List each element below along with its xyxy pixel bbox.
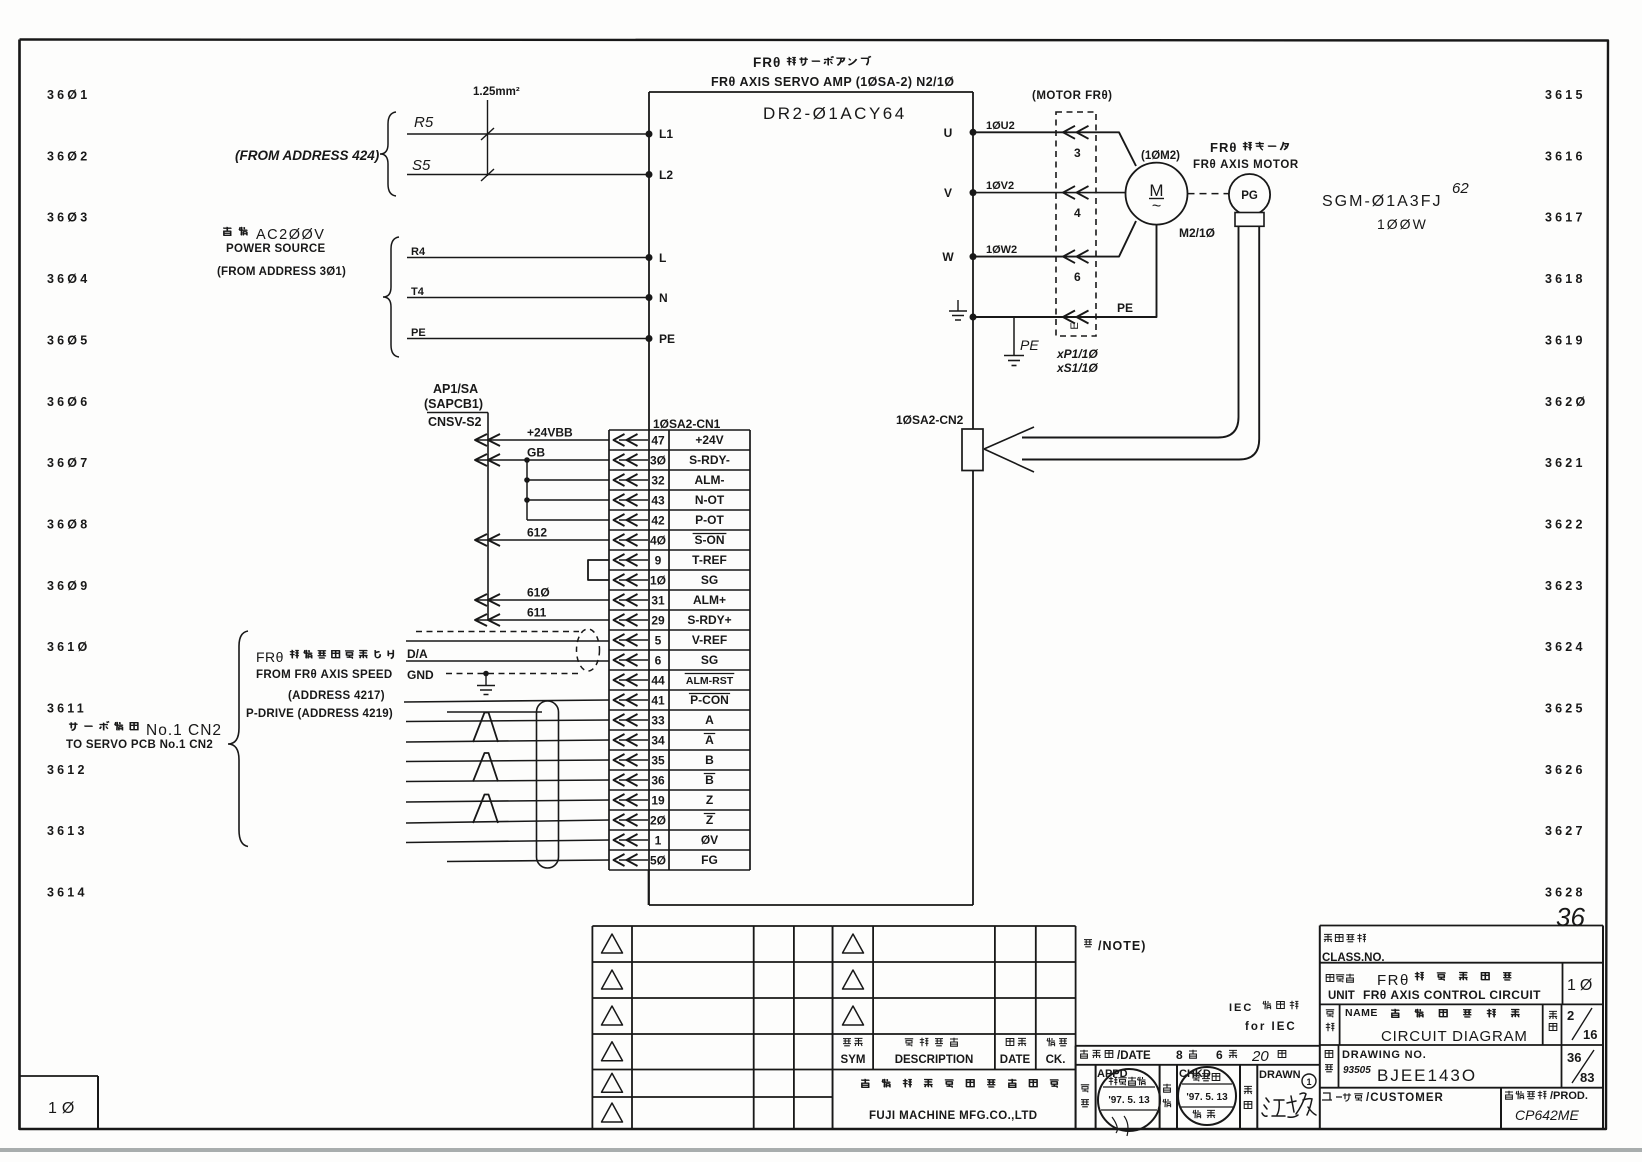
svg-text:1ØSA2-CN2: 1ØSA2-CN2 <box>896 413 964 427</box>
svg-text:3Ø: 3Ø <box>650 453 666 467</box>
wire GB to pin 30 <box>475 459 609 461</box>
label power source AC200V (japanese) <box>223 227 231 235</box>
svg-text:(1ØM2): (1ØM2) <box>1141 150 1180 162</box>
name row 名称 column <box>1339 1004 1341 1045</box>
svg-text:1Ø: 1Ø <box>48 1100 79 1117</box>
svg-text:L: L <box>659 251 666 265</box>
svg-text:'97. 5. 13: '97. 5. 13 <box>1186 1092 1228 1103</box>
svg-text:FG: FG <box>701 853 718 867</box>
twist pair A <box>473 713 498 743</box>
svg-text:61Ø: 61Ø <box>527 586 550 600</box>
svg-text:DATE: DATE <box>1000 1054 1031 1066</box>
PE ground drop wire <box>1013 317 1015 355</box>
svg-text:DR2-Ø1ACY64: DR2-Ø1ACY64 <box>763 104 907 123</box>
svg-text:for IEC: for IEC <box>1245 1021 1297 1033</box>
svg-text:U: U <box>944 126 953 140</box>
svg-text:3618: 3618 <box>1545 272 1586 286</box>
svg-text:3626: 3626 <box>1545 763 1586 777</box>
svg-text:ALM+: ALM+ <box>693 593 726 607</box>
svg-text:TO SERVO PCB No.1 CN2: TO SERVO PCB No.1 CN2 <box>66 739 213 751</box>
product no cell <box>1500 1088 1502 1129</box>
svg-text:DRAWING NO.: DRAWING NO. <box>1342 1049 1427 1061</box>
svg-text:36Ø4: 36Ø4 <box>47 272 90 286</box>
svg-text:4: 4 <box>1074 206 1081 220</box>
svg-text:T-REF: T-REF <box>692 553 727 567</box>
svg-text:ALM-: ALM- <box>695 473 725 487</box>
scan page bottom edge <box>0 1148 1642 1152</box>
svg-text:62: 62 <box>1452 180 1469 197</box>
pin 5Ø FG <box>619 859 648 861</box>
svg-text:1Ø: 1Ø <box>650 573 666 587</box>
svg-text:FRθ: FRθ <box>753 55 781 70</box>
brace to servo PCB No.1 CN2 <box>228 631 248 847</box>
pin 9 T-REF <box>619 559 648 561</box>
svg-text:FROM FRθ AXIS SPEED: FROM FRθ AXIS SPEED <box>256 669 393 681</box>
brace for R5/S5 inputs <box>380 112 396 196</box>
svg-text:PE: PE <box>1117 301 1133 315</box>
svg-text:36Ø7: 36Ø7 <box>47 456 90 470</box>
svg-text:36Ø6: 36Ø6 <box>47 395 90 409</box>
svg-text:3616: 3616 <box>1545 149 1586 163</box>
svg-text:Z: Z <box>706 813 713 827</box>
svg-text:3625: 3625 <box>1545 702 1586 716</box>
svg-text:+24VBB: +24VBB <box>527 426 573 440</box>
wire pair /B to pin 36 <box>406 780 609 782</box>
svg-text:BJEE143O: BJEE143O <box>1377 1066 1477 1085</box>
name electric circuit diagram (japanese) <box>1391 1009 1399 1017</box>
wire branch to pin 43 <box>527 499 609 501</box>
svg-text:R4: R4 <box>411 246 426 258</box>
svg-text:POWER SOURCE: POWER SOURCE <box>226 243 325 255</box>
svg-text:6: 6 <box>655 653 662 667</box>
terminal N <box>646 294 653 301</box>
svg-text:3627: 3627 <box>1545 824 1586 838</box>
revision triangles left <box>602 934 623 953</box>
svg-text:V: V <box>944 186 952 200</box>
svg-text:FRθ: FRθ <box>1210 140 1237 155</box>
svg-text:(FROM ADDRESS 424): (FROM ADDRESS 424) <box>235 148 380 163</box>
pin 43 N-OT <box>619 499 648 501</box>
label servo pcb No.1 CN2 (japanese) <box>69 722 77 730</box>
svg-text:3611: 3611 <box>47 702 87 716</box>
svg-text:No.1 CN2: No.1 CN2 <box>146 722 222 739</box>
svg-text:DRAWN: DRAWN <box>1259 1069 1301 1081</box>
svg-text:4Ø: 4Ø <box>650 533 666 547</box>
servo amp U1 box DR2-01ACY64 <box>649 91 973 93</box>
shield dashed line bottom / GND <box>446 673 580 675</box>
page column 頁番 <box>1542 1004 1544 1045</box>
svg-text:(MOTOR FRθ): (MOTOR FRθ) <box>1032 90 1113 102</box>
signal ground symbol <box>485 674 487 686</box>
svg-text:V-REF: V-REF <box>692 633 727 647</box>
drawn-by kanji <box>1244 1086 1252 1108</box>
pin 32 ALM- <box>619 479 648 481</box>
pin 1 ØV <box>619 839 648 841</box>
svg-text:A: A <box>705 733 714 747</box>
svg-text:FRθ AXIS MOTOR: FRθ AXIS MOTOR <box>1193 159 1299 171</box>
svg-text:/PROD.: /PROD. <box>1550 1090 1588 1102</box>
pin 47 +24V <box>619 439 648 441</box>
svg-text:ØV: ØV <box>701 833 718 847</box>
svg-text:(FROM ADDRESS 3Ø1): (FROM ADDRESS 3Ø1) <box>217 266 346 278</box>
svg-text:FRθ: FRθ <box>1377 972 1410 989</box>
pin 44 ALM-RST <box>619 679 648 681</box>
wire pair /Z to pin 20 <box>406 820 609 823</box>
svg-text:611: 611 <box>527 606 547 620</box>
terminal U <box>970 129 977 136</box>
svg-text:6: 6 <box>1216 1048 1223 1062</box>
svg-text:1ØØW: 1ØØW <box>1377 216 1428 232</box>
header DESCRIPTION cell <box>905 1039 913 1047</box>
pin 29 S-RDY+ <box>619 619 648 621</box>
wire +24VBB to pin 47 <box>475 439 609 441</box>
svg-text:36Ø5: 36Ø5 <box>47 333 90 347</box>
svg-text:ALM-RST: ALM-RST <box>686 675 734 687</box>
motor connector dashed box <box>1056 112 1096 336</box>
header DATE cell <box>1006 1039 1014 1046</box>
svg-text:Z: Z <box>706 793 713 807</box>
wire branch to pin 42 <box>527 519 609 521</box>
svg-text:PG: PG <box>1241 190 1258 202</box>
pin 41 P-CON <box>619 699 648 701</box>
svg-text:S-RDY-: S-RDY- <box>689 453 730 467</box>
CN2 arrow <box>984 427 1034 449</box>
svg-text:3615: 3615 <box>1545 88 1586 102</box>
terminal L1 <box>646 131 653 138</box>
svg-text:P-DRIVE (ADDRESS 4219): P-DRIVE (ADDRESS 4219) <box>246 708 393 720</box>
svg-text:1ØV2: 1ØV2 <box>986 180 1014 192</box>
svg-text:xP1/1Ø: xP1/1Ø <box>1056 347 1098 361</box>
svg-text:3624: 3624 <box>1545 640 1586 654</box>
svg-text:9: 9 <box>655 553 662 567</box>
pin 36 B <box>619 779 648 781</box>
svg-text:SG: SG <box>701 653 718 667</box>
svg-text:A: A <box>705 713 714 727</box>
wire pair /A to pin 34 <box>406 740 609 742</box>
svg-text:32: 32 <box>651 473 665 487</box>
svg-text:B: B <box>705 753 714 767</box>
revision table right / title header <box>833 925 1076 927</box>
svg-text:CK.: CK. <box>1046 1054 1066 1066</box>
revision circle 1 <box>1302 1074 1316 1088</box>
pin 31 ALM+ <box>619 599 648 601</box>
wire 610 to pin 31 <box>475 599 609 601</box>
svg-text:1ØU2: 1ØU2 <box>986 120 1015 132</box>
svg-text:SG: SG <box>701 573 718 587</box>
svg-text:36: 36 <box>1567 1050 1581 1065</box>
pin 34 A <box>619 739 648 741</box>
wire P-CON to pin 41 <box>404 700 609 702</box>
svg-text:3621: 3621 <box>1545 456 1586 470</box>
svg-text:1: 1 <box>1306 1077 1311 1087</box>
bracket over CNSV-S2 <box>427 412 488 414</box>
svg-text:E: E <box>1069 322 1081 329</box>
svg-text:D/A: D/A <box>407 647 428 661</box>
PG connector box <box>1235 213 1264 227</box>
svg-text:362Ø: 362Ø <box>1545 395 1588 409</box>
svg-text:T4: T4 <box>411 286 425 298</box>
svg-text:29: 29 <box>651 613 665 627</box>
svg-text:3622: 3622 <box>1545 517 1586 531</box>
unit cell kanji 機種名 <box>1326 975 1334 982</box>
svg-text:AC2ØØV: AC2ØØV <box>256 227 325 243</box>
shield dashed line top <box>416 631 579 633</box>
cable bundle loop <box>537 701 559 868</box>
date value 8年 6月 20日 <box>1176 1048 1286 1065</box>
approval kanji <box>1081 1085 1089 1107</box>
svg-text:IEC: IEC <box>1229 1002 1253 1014</box>
sheet number box 10 <box>20 1075 99 1077</box>
shield loop stub <box>447 711 542 713</box>
svg-text:W: W <box>942 250 954 264</box>
svg-text:CNSV-S2: CNSV-S2 <box>428 415 482 429</box>
svg-text:41: 41 <box>651 693 665 707</box>
wire PE to motor frame <box>973 225 1157 317</box>
svg-text:8: 8 <box>1176 1048 1183 1062</box>
terminal L2 <box>646 171 653 178</box>
ground terminal symbol at amp <box>957 300 959 311</box>
svg-text:36: 36 <box>651 773 665 787</box>
svg-text:1ØW2: 1ØW2 <box>986 244 1017 256</box>
pin 2Ø Z <box>619 819 648 821</box>
terminal PE <box>646 335 653 342</box>
pin 3Ø S-RDY- <box>619 459 648 461</box>
svg-text:20: 20 <box>1251 1048 1269 1065</box>
svg-text:5: 5 <box>655 633 662 647</box>
svg-text:M2/1Ø: M2/1Ø <box>1179 226 1215 240</box>
svg-text:FRθ: FRθ <box>256 649 284 665</box>
drawing row 図番 column <box>1338 1045 1340 1088</box>
shield ellipse <box>577 629 600 671</box>
svg-text:PE: PE <box>1020 337 1039 353</box>
motor M 10M2 circle <box>1126 163 1188 225</box>
svg-text:'97. 5. 13: '97. 5. 13 <box>1108 1095 1150 1106</box>
svg-text:UNIT: UNIT <box>1328 990 1355 1002</box>
svg-text:3628: 3628 <box>1545 886 1586 900</box>
pin 1Ø SG <box>619 579 648 581</box>
svg-text:PE: PE <box>411 327 426 339</box>
svg-text:CLASS.NO.: CLASS.NO. <box>1322 952 1385 964</box>
svg-text:xS1/1Ø: xS1/1Ø <box>1056 361 1098 375</box>
svg-text:2Ø: 2Ø <box>650 813 666 827</box>
terminal W <box>970 253 977 260</box>
cable size marker line <box>487 100 489 176</box>
svg-text:~: ~ <box>1152 198 1161 215</box>
check stamp circle <box>1178 1067 1236 1125</box>
pin 33 A <box>619 719 648 721</box>
svg-text:NAME: NAME <box>1345 1007 1378 1019</box>
svg-text:44: 44 <box>651 673 665 687</box>
svg-text:3613: 3613 <box>47 824 88 838</box>
revision triangles right <box>843 934 864 953</box>
svg-text:(SAPCB1): (SAPCB1) <box>424 397 483 411</box>
revision table left <box>592 925 832 927</box>
pin 19 Z <box>619 799 648 801</box>
GB branch bus <box>526 460 528 520</box>
svg-text:1: 1 <box>655 833 662 847</box>
wire to pin 5 V-REF <box>406 640 609 642</box>
company cell Fuji Machine Mfg <box>861 1079 869 1087</box>
wire pair B to pin 35 <box>406 760 609 762</box>
header CK cell <box>1047 1038 1055 1046</box>
svg-text:B: B <box>705 773 714 787</box>
svg-text:36Ø3: 36Ø3 <box>47 211 90 225</box>
svg-text:83: 83 <box>1580 1070 1594 1085</box>
pin 35 B <box>619 759 648 761</box>
wire pair Z to pin 19 <box>406 800 609 802</box>
dashed shaft link motor to PG <box>1188 193 1229 195</box>
svg-text:/NOTE): /NOTE) <box>1098 939 1146 953</box>
svg-text:/CUSTOMER: /CUSTOMER <box>1366 1092 1444 1104</box>
note area label <box>1084 939 1146 953</box>
svg-text:43: 43 <box>651 493 665 507</box>
terminal PE out <box>970 314 977 321</box>
pin 42 P-OT <box>619 519 648 521</box>
svg-text:93505: 93505 <box>1343 1065 1371 1076</box>
svg-text:19: 19 <box>651 793 665 807</box>
svg-text:3623: 3623 <box>1545 579 1586 593</box>
brace for R4/T4/PE inputs <box>383 237 399 357</box>
svg-text:SGM-Ø1A3FJ: SGM-Ø1A3FJ <box>1322 193 1442 210</box>
svg-text:AP1/SA: AP1/SA <box>433 382 478 396</box>
encoder cable pair to CN2 <box>1022 226 1239 438</box>
vertical stub CN1 to box bottom <box>648 870 650 905</box>
wire pair A to pin 33 <box>406 720 609 722</box>
svg-text:36Ø1: 36Ø1 <box>47 88 90 102</box>
svg-text:L1: L1 <box>659 127 673 141</box>
svg-text:5Ø: 5Ø <box>650 853 666 867</box>
svg-text:CIRCUIT DIAGRAM: CIRCUIT DIAGRAM <box>1381 1028 1528 1045</box>
wire 611 to pin 29 <box>475 619 609 621</box>
svg-text:33: 33 <box>651 713 665 727</box>
pin 6 SG <box>619 659 648 661</box>
svg-text:3619: 3619 <box>1545 333 1586 347</box>
ground symbol PE <box>1004 355 1024 357</box>
terminal L <box>646 254 653 261</box>
svg-text:+24V: +24V <box>695 433 723 447</box>
svg-text:PE: PE <box>659 332 675 346</box>
svg-text:SYM: SYM <box>841 1054 866 1066</box>
svg-text:P-OT: P-OT <box>695 513 724 527</box>
unit title FRθ axis control circuit (japanese) <box>1377 972 1512 989</box>
svg-text:3612: 3612 <box>47 763 88 777</box>
svg-text:6: 6 <box>1074 270 1081 284</box>
drawn signature Esaka (handwritten) <box>1262 1093 1316 1117</box>
svg-text:47: 47 <box>651 433 665 447</box>
drawing count 36/83 <box>1561 1045 1563 1088</box>
svg-text:S-RDY+: S-RDY+ <box>687 613 731 627</box>
stamp row cells <box>1095 1065 1097 1129</box>
svg-text:S5: S5 <box>412 157 431 174</box>
pin 4Ø S-ON <box>619 539 648 541</box>
svg-text:S-ON: S-ON <box>695 533 725 547</box>
svg-text:1.25mm²: 1.25mm² <box>473 86 520 98</box>
customer cell <box>1322 1092 1444 1104</box>
sheet number 10 cell <box>1562 963 1564 1005</box>
encoder PG circle <box>1229 174 1270 215</box>
svg-text:FRθ AXIS SERVO AMP (1ØSA-2) N2: FRθ AXIS SERVO AMP (1ØSA-2) N2/1Ø <box>711 75 954 89</box>
check kanji <box>1163 1084 1171 1107</box>
svg-text:42: 42 <box>651 513 665 527</box>
svg-text:36Ø9: 36Ø9 <box>47 579 90 593</box>
svg-text:3: 3 <box>1074 146 1081 160</box>
wire branch to pin 32 <box>527 479 609 481</box>
svg-text:35: 35 <box>651 753 665 767</box>
svg-text:P-CON: P-CON <box>690 693 729 707</box>
date row <box>1076 1045 1320 1047</box>
svg-text:36Ø2: 36Ø2 <box>47 149 90 163</box>
svg-text:L2: L2 <box>659 168 673 182</box>
svg-text:31: 31 <box>651 593 665 607</box>
svg-text:N-OT: N-OT <box>695 493 725 507</box>
svg-text:CP642ME: CP642ME <box>1515 1107 1579 1123</box>
wire 612 to pin 40 <box>475 539 609 541</box>
svg-text:16: 16 <box>1583 1027 1597 1042</box>
svg-text:3614: 3614 <box>47 886 88 900</box>
svg-text:3617: 3617 <box>1545 211 1586 225</box>
svg-text:36: 36 <box>1556 902 1585 932</box>
pin 5 V-REF <box>619 639 648 641</box>
svg-text:36Ø8: 36Ø8 <box>47 517 90 531</box>
svg-text:FRθ AXIS CONTROL CIRCUIT: FRθ AXIS CONTROL CIRCUIT <box>1363 988 1541 1002</box>
svg-text:34: 34 <box>651 733 665 747</box>
svg-text:1Ø: 1Ø <box>1567 977 1596 994</box>
svg-text:1ØSA2-CN1: 1ØSA2-CN1 <box>653 417 721 431</box>
terminal V <box>970 189 977 196</box>
approval stamp circle <box>1098 1069 1160 1131</box>
class no cell <box>1324 934 1332 942</box>
twist pair Z <box>473 795 498 824</box>
title block outline <box>1320 925 1603 927</box>
svg-text:/DATE: /DATE <box>1117 1050 1151 1062</box>
svg-text:612: 612 <box>527 526 547 540</box>
svg-text:R5: R5 <box>414 114 434 131</box>
svg-text:(ADDRESS 4217): (ADDRESS 4217) <box>288 690 385 702</box>
wire to pin 6 SG <box>406 660 609 662</box>
header SYM cell <box>843 1039 851 1046</box>
svg-text:GND: GND <box>407 668 434 682</box>
svg-text:2: 2 <box>1567 1008 1574 1023</box>
jumper pins 9-10 <box>588 560 609 580</box>
svg-text:361Ø: 361Ø <box>47 640 90 654</box>
svg-text:N: N <box>659 291 668 305</box>
svg-text:GB: GB <box>527 446 545 460</box>
label IEC standard (japanese) <box>1229 1001 1298 1014</box>
twist pair B <box>473 753 498 782</box>
svg-text:FUJI MACHINE MFG.CO.,LTD: FUJI MACHINE MFG.CO.,LTD <box>869 1110 1037 1122</box>
wire FG to pin 50 <box>447 860 609 862</box>
wire 0V to pin 1 <box>406 840 609 843</box>
svg-text:DESCRIPTION: DESCRIPTION <box>895 1054 974 1066</box>
